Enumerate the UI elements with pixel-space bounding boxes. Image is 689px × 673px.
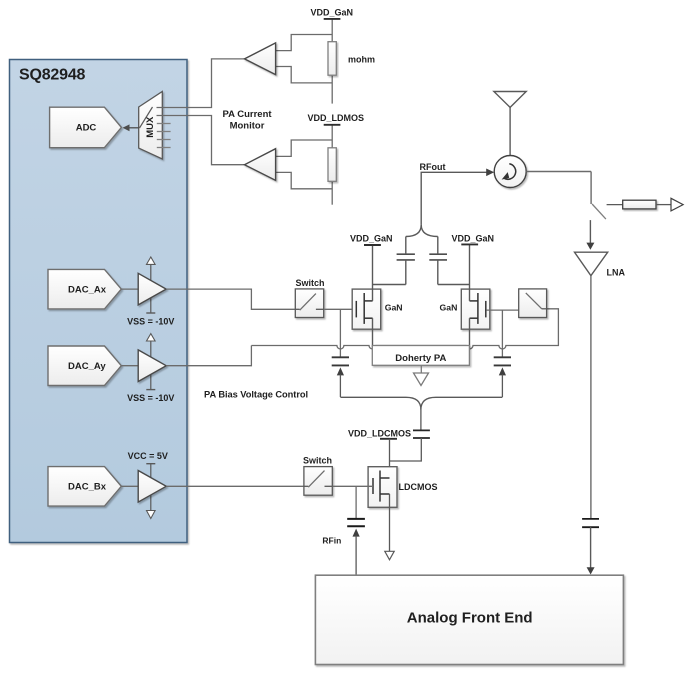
- svg-text:MUX: MUX: [145, 116, 156, 138]
- svg-text:Monitor: Monitor: [230, 121, 265, 132]
- svg-text:Doherty PA: Doherty PA: [395, 353, 446, 364]
- svg-text:VDD_GaN: VDD_GaN: [311, 7, 354, 17]
- svg-text:VDD_GaN: VDD_GaN: [350, 233, 393, 243]
- svg-text:ADC: ADC: [76, 123, 97, 134]
- svg-text:DAC_Ax: DAC_Ax: [68, 284, 107, 295]
- svg-text:GaN: GaN: [440, 302, 458, 312]
- svg-text:LNA: LNA: [607, 268, 626, 278]
- svg-text:Switch: Switch: [295, 278, 324, 288]
- svg-text:VDD_GaN: VDD_GaN: [452, 233, 495, 243]
- svg-text:Analog Front End: Analog Front End: [407, 609, 533, 626]
- svg-text:LDCMOS: LDCMOS: [399, 482, 438, 492]
- svg-text:VDD_LDCMOS: VDD_LDCMOS: [348, 429, 411, 439]
- svg-text:DAC_Bx: DAC_Bx: [68, 482, 107, 493]
- svg-text:RFout: RFout: [420, 162, 446, 172]
- svg-text:RFin: RFin: [322, 536, 341, 546]
- svg-text:PA Current: PA Current: [222, 109, 272, 120]
- svg-text:Switch: Switch: [303, 456, 332, 466]
- svg-text:mohm: mohm: [348, 55, 375, 65]
- svg-text:VSS = -10V: VSS = -10V: [127, 393, 174, 403]
- svg-text:GaN: GaN: [385, 302, 403, 312]
- svg-text:SQ82948: SQ82948: [19, 66, 86, 83]
- svg-text:VCC = 5V: VCC = 5V: [128, 451, 168, 461]
- svg-text:DAC_Ay: DAC_Ay: [68, 361, 106, 372]
- svg-text:PA Bias Voltage Control: PA Bias Voltage Control: [204, 390, 308, 400]
- svg-text:VSS = -10V: VSS = -10V: [127, 316, 174, 326]
- svg-text:VDD_LDMOS: VDD_LDMOS: [308, 113, 365, 123]
